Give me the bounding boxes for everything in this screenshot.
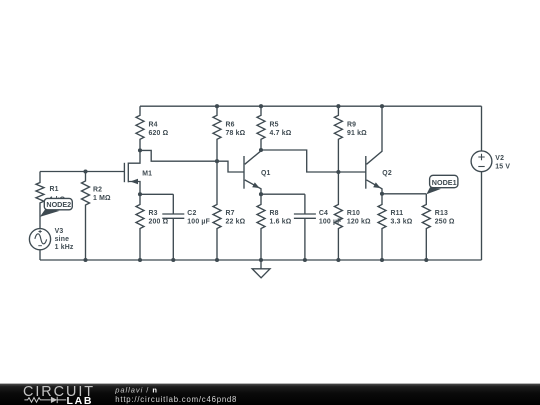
svg-text:C2: C2 [187, 210, 196, 217]
svg-text:C4: C4 [319, 210, 328, 217]
wire M1 drain to Q1 base [140, 150, 244, 172]
svg-text:sine: sine [55, 236, 70, 243]
svg-text:R9: R9 [347, 122, 356, 129]
svg-text:NODE1: NODE1 [432, 178, 457, 187]
capacitor C4 [294, 194, 316, 260]
svg-text:R13: R13 [435, 210, 448, 217]
svg-text:R8: R8 [270, 210, 279, 217]
svg-text:22 kΩ: 22 kΩ [226, 219, 246, 226]
svg-text:R1: R1 [50, 186, 59, 193]
svg-text:R2: R2 [93, 187, 102, 194]
capacitor C2 [162, 194, 184, 260]
resistor R13 [422, 194, 430, 260]
ground [260, 260, 262, 269]
svg-text:R3: R3 [149, 210, 158, 217]
svg-text:1 kHz: 1 kHz [55, 244, 74, 251]
svg-text:R5: R5 [270, 122, 279, 129]
resistor R5 [257, 106, 265, 150]
svg-text:R10: R10 [347, 210, 360, 217]
transistor Q1 [243, 156, 245, 189]
wire Q2 emitter to R13 [382, 193, 426, 195]
svg-text:http://circuitlab.com/c46pnd8: http://circuitlab.com/c46pnd8 [115, 395, 237, 404]
wire bottom rail [40, 259, 482, 261]
resistor R4 [136, 106, 144, 150]
svg-text:R4: R4 [149, 122, 158, 129]
resistor R11 [378, 194, 386, 260]
svg-text:NODE2: NODE2 [46, 200, 71, 209]
svg-text:15 V: 15 V [495, 163, 510, 170]
svg-text:R7: R7 [226, 210, 235, 217]
svg-text:78 kΩ: 78 kΩ [226, 130, 246, 137]
resistor R2 [82, 172, 90, 261]
resistor R7 [213, 161, 221, 260]
wire M1 source to C2 [140, 193, 173, 195]
node NODE1 flag [426, 175, 458, 194]
svg-text:620 Ω: 620 Ω [149, 130, 169, 137]
svg-text:pallavi / n: pallavi / n [114, 386, 158, 395]
wire top rail [140, 105, 482, 107]
svg-text:LAB: LAB [67, 395, 94, 405]
svg-text:Q2: Q2 [382, 170, 392, 177]
voltage source V3 [29, 229, 50, 250]
svg-text:200 Ω: 200 Ω [149, 219, 169, 226]
node NODE2 flag [40, 198, 73, 217]
resistor R8 [257, 194, 265, 260]
svg-text:250 Ω: 250 Ω [435, 219, 455, 226]
mosfet M1 [123, 163, 125, 182]
voltage source V2 [481, 106, 483, 151]
transistor Q2 [365, 156, 367, 189]
svg-text:1.6 kΩ: 1.6 kΩ [270, 219, 292, 226]
svg-text:1 MΩ: 1 MΩ [93, 195, 111, 202]
svg-text:V2: V2 [495, 155, 504, 162]
svg-text:100 µF: 100 µF [319, 219, 342, 226]
svg-text:M1: M1 [142, 171, 152, 178]
svg-text:R6: R6 [226, 122, 235, 129]
resistor R9 [334, 106, 342, 172]
svg-text:120 kΩ: 120 kΩ [347, 219, 371, 226]
wire Q1 collector to Q2 base [261, 150, 366, 172]
svg-text:R11: R11 [391, 210, 404, 217]
wire input rail (R1/R2 top to M1 gate) [40, 171, 124, 173]
svg-text:V3: V3 [55, 228, 64, 235]
wire Q1 emitter to C4 [261, 193, 305, 195]
resistor R1 [36, 172, 44, 229]
svg-text:91 kΩ: 91 kΩ [347, 130, 367, 137]
logo resistor-diode glyph [24, 397, 66, 403]
svg-text:100 µF: 100 µF [187, 219, 210, 226]
svg-text:4.7 kΩ: 4.7 kΩ [270, 130, 292, 137]
svg-text:Q1: Q1 [261, 170, 271, 177]
node junction dots [83, 104, 428, 262]
resistor R10 [334, 172, 342, 260]
resistor R3 [136, 194, 144, 260]
svg-text:3.3 kΩ: 3.3 kΩ [391, 219, 413, 226]
resistor R6 [213, 106, 221, 161]
